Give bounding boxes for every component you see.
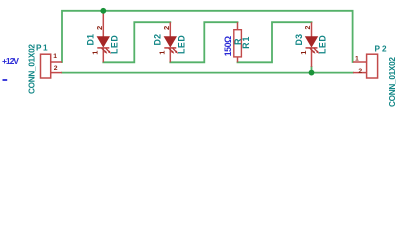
svg-text:2: 2 (162, 26, 171, 30)
svg-text:CONN_01X02: CONN_01X02 (388, 57, 397, 107)
svg-text:2: 2 (54, 65, 58, 72)
svg-text:+12V: +12V (2, 56, 19, 66)
svg-text:150Ω: 150Ω (223, 36, 233, 56)
svg-text:R1: R1 (241, 37, 251, 49)
svg-text:D2: D2 (153, 34, 163, 46)
svg-text:LED: LED (318, 35, 328, 54)
svg-text:1: 1 (299, 50, 308, 55)
svg-text:LED: LED (176, 35, 186, 54)
svg-text:2: 2 (95, 26, 104, 30)
svg-text:D3: D3 (294, 34, 304, 46)
svg-text:P1: P1 (36, 43, 48, 52)
svg-text:2: 2 (305, 26, 312, 30)
svg-text:P2: P2 (375, 45, 387, 54)
svg-text:LED: LED (109, 35, 119, 54)
svg-text:1: 1 (53, 53, 57, 60)
svg-text:1: 1 (91, 50, 100, 55)
svg-text:CONN_01X02: CONN_01X02 (28, 44, 37, 94)
svg-text:1: 1 (158, 50, 167, 55)
svg-text:D1: D1 (86, 34, 96, 46)
svg-text:2: 2 (358, 68, 362, 75)
svg-text:1: 1 (355, 56, 359, 63)
